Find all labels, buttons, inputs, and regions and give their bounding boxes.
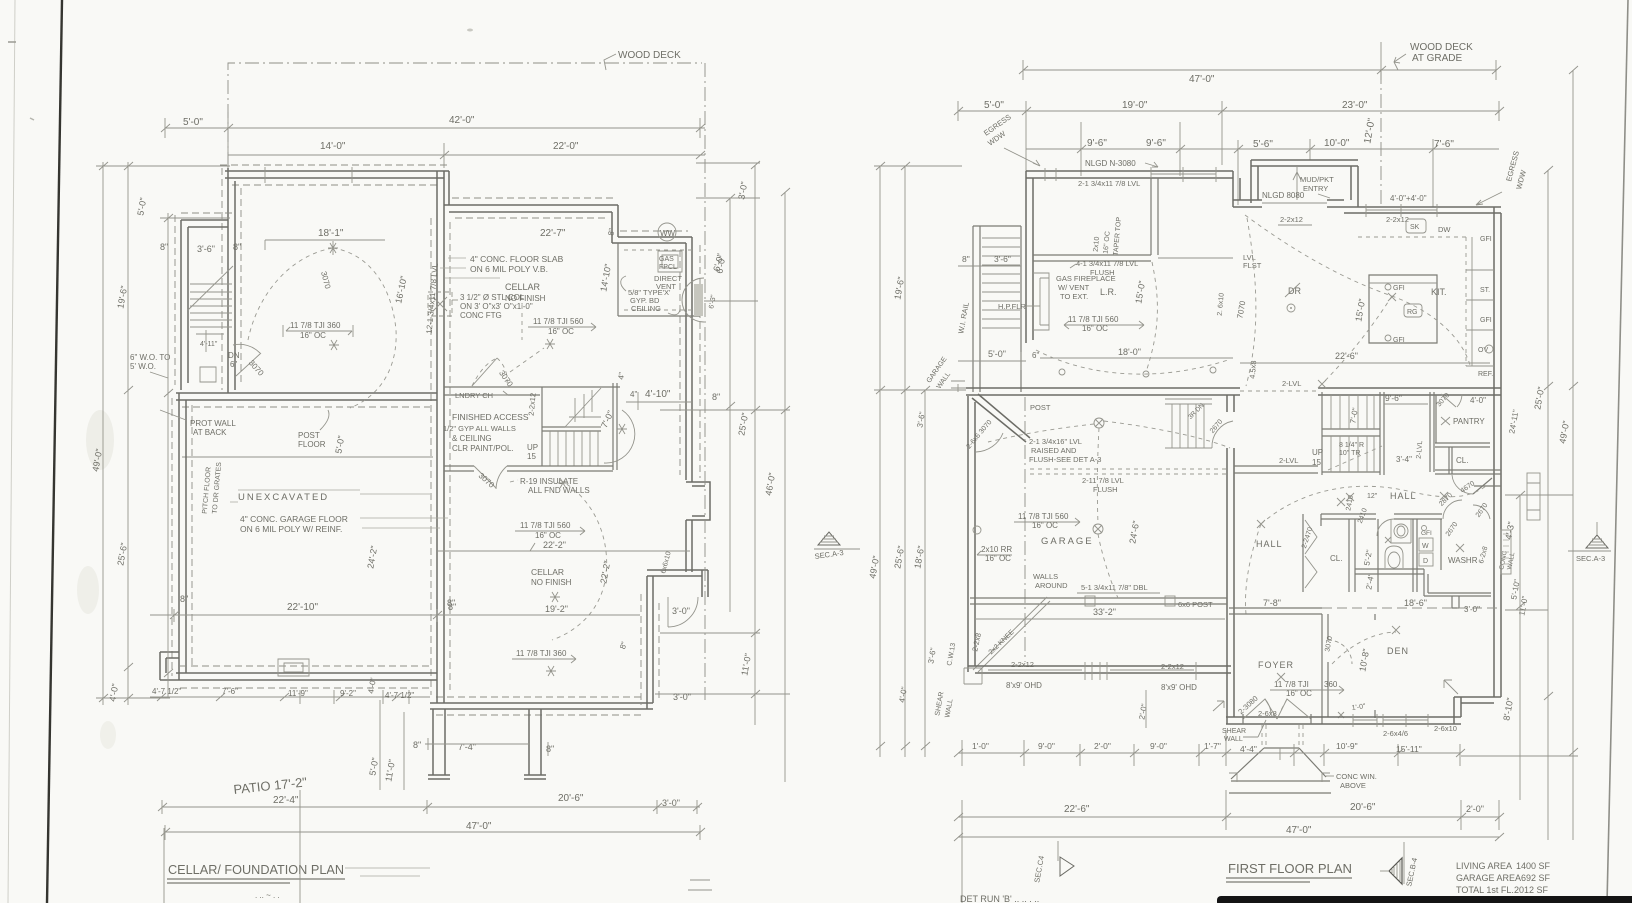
fireplace foundation bump right	[686, 482, 710, 520]
svg-text:ON 6 MIL POLY W/ REINF.: ON 6 MIL POLY W/ REINF.	[240, 524, 342, 534]
W.W circled symbol	[658, 223, 676, 241]
svg-text:9'-2": 9'-2"	[340, 689, 356, 698]
svg-text:3'-0": 3'-0"	[672, 606, 690, 616]
stair treads center lower flight	[1331, 436, 1374, 472]
svg-text:3 1/2" Ø STL COL: 3 1/2" Ø STL COL	[460, 293, 525, 302]
svg-text:18'-6": 18'-6"	[1404, 598, 1427, 608]
svg-text:5'-0": 5'-0"	[183, 117, 203, 128]
svg-text:9'-0": 9'-0"	[1150, 741, 1167, 751]
wall: cellar top-right	[444, 205, 618, 212]
light foyer den	[1277, 673, 1285, 681]
svg-text:UP: UP	[527, 443, 538, 452]
pier post 2	[524, 709, 546, 779]
garage door sills	[988, 662, 1196, 680]
svg-text:7'-6": 7'-6"	[222, 687, 238, 696]
outside stair left	[973, 226, 1021, 392]
garage entry steps	[1165, 399, 1212, 448]
svg-text:4'-4": 4'-4"	[1240, 744, 1257, 754]
dashed arc garage wiring	[1097, 428, 1099, 524]
garage knee brace diagonal	[973, 597, 1050, 672]
svg-text:FOYER: FOYER	[1258, 660, 1294, 670]
scan black bar bottom right	[1217, 896, 1632, 903]
svg-text:8'x9' OHD: 8'x9' OHD	[1161, 683, 1197, 692]
svg-text:CONC FTG: CONC FTG	[460, 311, 502, 320]
svg-text:22'-10": 22'-10"	[287, 602, 318, 613]
svg-text:NO FINISH: NO FINISH	[531, 578, 572, 587]
wall: garage front	[968, 666, 1231, 673]
mud bump top	[1251, 160, 1358, 203]
svg-text:GARAGE AREA: GARAGE AREA	[1456, 873, 1521, 883]
svg-text:1400 SF: 1400 SF	[1516, 861, 1551, 871]
svg-text:16" OC: 16" OC	[548, 327, 574, 336]
bottom dim row 2	[958, 816, 1499, 818]
svg-text:11 7/8 TJI 560: 11 7/8 TJI 560	[533, 317, 584, 326]
den/foyer divider	[1322, 614, 1328, 724]
svg-text:2-2x12: 2-2x12	[1011, 660, 1034, 669]
svg-text:WALL: WALL	[1224, 736, 1243, 743]
range box	[1404, 304, 1422, 317]
svg-text:4'-7 1/2": 4'-7 1/2"	[152, 687, 181, 696]
svg-text:CONC WIN.: CONC WIN.	[1336, 772, 1377, 781]
svg-text:47'-0": 47'-0"	[1189, 74, 1215, 85]
svg-text:3'-0": 3'-0"	[673, 692, 691, 702]
svg-text:11 7/8 TJI: 11 7/8 TJI	[1274, 680, 1309, 689]
mud bump arrow window	[1293, 166, 1301, 200]
svg-text:CLR PAINT/POL.: CLR PAINT/POL.	[452, 444, 514, 453]
windows bottom wall	[1353, 714, 1428, 727]
steel column detail	[428, 292, 452, 316]
stair treads entry	[190, 284, 232, 334]
svg-text:MUD/PKT: MUD/PKT	[1300, 175, 1334, 184]
svg-text:4" CONC. FLOOR SLAB: 4" CONC. FLOOR SLAB	[470, 254, 564, 264]
door NLGD 8080 opening	[1262, 202, 1327, 204]
SEC.B-4 marker	[1403, 842, 1405, 884]
svg-text:4'-0": 4'-0"	[1470, 396, 1486, 405]
dashed arcs dining	[1245, 215, 1470, 365]
svg-text:LNDRY CH: LNDRY CH	[455, 391, 493, 400]
svg-text:3'-4": 3'-4"	[1396, 455, 1412, 464]
chimney chase hatch right	[694, 284, 703, 316]
dashed arc den	[1332, 632, 1396, 664]
light hall	[1337, 498, 1345, 506]
entry stairwell box top-left	[181, 220, 228, 390]
opening door bottom front room	[472, 358, 497, 386]
kitchen sink box	[1406, 219, 1426, 233]
svg-text:. .. ~ . .: . .. ~ . .	[255, 891, 280, 900]
svg-text:11'-9": 11'-9"	[288, 689, 308, 698]
wall: right wall mid	[686, 520, 692, 572]
svg-text:7'-6": 7'-6"	[1434, 139, 1454, 150]
stair upper flight diagonal + treads	[565, 388, 601, 427]
svg-text:2-2x12: 2-2x12	[1280, 215, 1303, 224]
svg-text:GFI: GFI	[1393, 285, 1405, 292]
7070 opening dashes	[1240, 390, 1318, 392]
svg-text:W: W	[1422, 543, 1429, 550]
svg-text:KIT.: KIT.	[1431, 287, 1447, 297]
svg-text:11 7/8 TJI 360: 11 7/8 TJI 360	[290, 321, 341, 330]
svg-text:8'x9' OHD: 8'x9' OHD	[1006, 681, 1042, 690]
svg-text:2x10 RR: 2x10 RR	[981, 545, 1012, 554]
stair hall bottom wall	[444, 466, 613, 471]
counter dashed	[1358, 237, 1466, 366]
big dashed swing arc front room	[248, 248, 333, 340]
svg-text:PROT WALL: PROT WALL	[190, 419, 236, 428]
svg-text:TOTAL 1st FL.: TOTAL 1st FL.	[1456, 885, 1514, 895]
svg-text:DW: DW	[1438, 225, 1451, 234]
svg-text:4'-11": 4'-11"	[200, 341, 218, 348]
dashed curve cellar	[552, 480, 607, 640]
star	[550, 592, 560, 602]
dashed arc bdrm	[1036, 350, 1228, 374]
svg-text:11 7/8 TJI 360: 11 7/8 TJI 360	[516, 649, 567, 658]
closet bifold doors	[1303, 514, 1321, 592]
wall: right section vertical	[647, 576, 653, 709]
porch steps trapezoid	[1229, 748, 1331, 793]
wall: top-right footing dashes	[452, 198, 616, 218]
svg-text:HALL: HALL	[1256, 539, 1283, 549]
svg-text:22'-7": 22'-7"	[540, 228, 566, 239]
star symbol cellar	[558, 478, 568, 488]
right dim stack of left plan	[704, 63, 706, 700]
stairwell door leaf	[236, 353, 261, 376]
garage slab edge line	[182, 456, 433, 458]
svg-text:GFI: GFI	[1393, 337, 1405, 344]
svg-text:11 7/8 TJI 560: 11 7/8 TJI 560	[1068, 315, 1119, 324]
pier post 1	[428, 709, 450, 779]
right dim stack right plan	[1520, 70, 1573, 840]
svg-text:WALLS: WALLS	[1033, 572, 1058, 581]
svg-text:8": 8"	[160, 242, 168, 252]
svg-text:18'-0": 18'-0"	[1118, 347, 1141, 357]
svg-text:2-1 3/4x11 7/8 LVL: 2-1 3/4x11 7/8 LVL	[1078, 179, 1140, 188]
svg-text:GARAGE: GARAGE	[1041, 536, 1094, 547]
star above stairs	[545, 339, 555, 349]
svg-text:6x6 POST: 6x6 POST	[1178, 600, 1213, 609]
light pantry	[1441, 417, 1450, 425]
svg-text:SHEAR: SHEAR	[1222, 728, 1246, 735]
svg-text:5'-0": 5'-0"	[984, 100, 1004, 111]
svg-text:19'-0": 19'-0"	[1122, 100, 1148, 111]
svg-text:ON 3' O"x3' O"x1'-0": ON 3' O"x3' O"x1'-0"	[460, 302, 533, 311]
svg-text:15'-11": 15'-11"	[1396, 744, 1422, 754]
cabinets right wall	[1466, 237, 1494, 366]
vertical ref lines bottom title area	[164, 790, 300, 903]
tie lines right	[1461, 495, 1578, 756]
dim line 14'-0 / 22'-0	[228, 143, 705, 168]
svg-text:2-1 3/4x16" LVL: 2-1 3/4x16" LVL	[1029, 437, 1082, 446]
svg-text:CELLAR: CELLAR	[531, 567, 564, 577]
wall: hall/foyer divider	[1229, 608, 1322, 614]
wall: right wall	[1494, 207, 1501, 697]
beam line flush lvl	[1033, 255, 1151, 261]
svg-text:22'-4": 22'-4"	[273, 795, 299, 806]
svg-text:8": 8"	[546, 744, 554, 754]
svg-text:2x10: 2x10	[1093, 236, 1101, 252]
star symbol ceiling light	[328, 241, 338, 255]
svg-text:692 SF: 692 SF	[1521, 873, 1551, 883]
wall: step at x=444	[444, 171, 449, 212]
svg-text:DET RUN 'B' .. .. . ..: DET RUN 'B' .. .. . ..	[960, 894, 1039, 903]
wall: bdrm/lr divider vertical	[1151, 178, 1158, 255]
svg-text:D: D	[1423, 558, 1428, 565]
svg-text:2-6x10: 2-6x10	[1434, 724, 1457, 733]
svg-text:WW: WW	[660, 229, 676, 238]
svg-text:8": 8"	[413, 740, 421, 750]
stair diagonal entry	[188, 266, 233, 310]
fireplace box on left wall	[1033, 273, 1049, 330]
svg-text:POST: POST	[1030, 403, 1051, 412]
svg-text:FIRST FLOOR PLAN: FIRST FLOOR PLAN	[1228, 861, 1352, 876]
dim line 22'-4 20'-6 3'-0	[162, 800, 700, 814]
SEC.A-3 triangle right	[1586, 535, 1608, 548]
porch rails dashed	[1262, 725, 1303, 746]
svg-text:42'-0": 42'-0"	[449, 115, 475, 126]
svg-text:14'-0": 14'-0"	[320, 141, 346, 152]
sec C4 triangle left plan	[688, 880, 712, 890]
svg-text:FLUSH-SEE DET A-3: FLUSH-SEE DET A-3	[1029, 455, 1101, 464]
deck dash-dot vertical	[1380, 70, 1382, 207]
wall: top wall C	[612, 237, 692, 243]
svg-text:PANTRY: PANTRY	[1453, 417, 1485, 426]
svg-text:AROUND: AROUND	[1035, 581, 1068, 590]
svg-text:ALL FND WALLS: ALL FND WALLS	[528, 486, 590, 495]
svg-text:2012 SF: 2012 SF	[1514, 885, 1549, 895]
svg-text:FINISHED ACCESS: FINISHED ACCESS	[452, 412, 529, 422]
svg-text:9'-6": 9'-6"	[1385, 393, 1402, 403]
wall: left wall upper footing dashes	[222, 168, 241, 390]
light symbols bdrm	[1059, 369, 1065, 375]
leader arrow	[1394, 54, 1406, 70]
svg-text:RAISED AND: RAISED AND	[1031, 446, 1077, 455]
scan smudges left margin	[86, 410, 114, 470]
small vertical dim marks bottom	[300, 690, 409, 704]
svg-text:CELLAR/ FOUNDATION PLAN: CELLAR/ FOUNDATION PLAN	[168, 862, 344, 877]
svg-text:23'-0": 23'-0"	[1342, 100, 1368, 111]
left dim stack line 2	[127, 162, 129, 705]
leader line down from cellar text	[521, 305, 523, 340]
wall: bdrm top	[1026, 171, 1233, 178]
bath left wall	[1377, 519, 1379, 592]
dim 9-6 9-6 5-6 10-0 7-6	[1026, 122, 1499, 207]
svg-text:2-2x12: 2-2x12	[1386, 215, 1409, 224]
svg-text:2-11 7/8 LVL: 2-11 7/8 LVL	[1082, 476, 1124, 485]
svg-text:4-1 3/4x11 7/8 LVL: 4-1 3/4x11 7/8 LVL	[1076, 259, 1138, 268]
svg-text:W/ VENT: W/ VENT	[1058, 283, 1090, 292]
svg-text:11 7/8 TJI 560: 11 7/8 TJI 560	[1018, 512, 1069, 521]
svg-text:360: 360	[1324, 680, 1338, 689]
svg-text:& CEILING: & CEILING	[452, 434, 492, 443]
svg-text:15: 15	[1312, 458, 1321, 467]
dashed wiring across stairs	[1328, 446, 1382, 470]
closet bottom wall	[1474, 485, 1501, 487]
svg-text:2-LVL: 2-LVL	[1279, 456, 1298, 465]
washer dryer boxes	[1419, 538, 1433, 551]
svg-text:19'-2": 19'-2"	[545, 604, 568, 614]
gas fp room interior right upper	[618, 243, 700, 316]
svg-text:8": 8"	[180, 594, 188, 604]
bath bottom wall + step	[1355, 569, 1491, 596]
svg-text:16" OC: 16" OC	[535, 531, 561, 540]
dim line 5'-0 / 42'-0	[165, 112, 705, 175]
bath door arc	[1377, 519, 1394, 536]
laundry right wall	[1440, 519, 1442, 570]
stoop bump	[1452, 596, 1459, 608]
svg-text:GAS FIREPLACE: GAS FIREPLACE	[1056, 274, 1116, 283]
svg-text:47'-0": 47'-0"	[1286, 825, 1312, 836]
svg-text:8": 8"	[962, 254, 970, 264]
svg-text:22'-2": 22'-2"	[543, 540, 566, 550]
svg-text:9'-6": 9'-6"	[1087, 138, 1107, 149]
stair small square landing	[200, 367, 216, 382]
svg-text:22'-6": 22'-6"	[1064, 804, 1090, 815]
svg-text:10'-9": 10'-9"	[1336, 741, 1358, 751]
svg-text:DEN: DEN	[1387, 646, 1409, 656]
ref line bottom	[961, 820, 963, 903]
kitchen island	[1369, 275, 1437, 343]
garage beam line	[970, 598, 1227, 604]
closet right wall	[1349, 519, 1355, 592]
door arc bfast	[976, 433, 1003, 452]
leader arrow wood deck	[604, 54, 616, 70]
wall: kitchen top	[1344, 207, 1501, 213]
star at stair arc	[617, 424, 627, 434]
wall: garage/house divider	[1227, 395, 1234, 724]
wall: cellar top-left (solid pair)	[225, 171, 449, 178]
svg-text:2-6x4/6: 2-6x4/6	[1383, 729, 1408, 738]
svg-text:20'-6": 20'-6"	[558, 793, 584, 804]
wall: right wall upper	[686, 237, 692, 482]
scan left faint inner line	[8, 0, 15, 903]
cellar stairs center	[542, 383, 617, 470]
front double door arcs	[1243, 699, 1311, 719]
star	[546, 666, 556, 676]
svg-text:WOOD DECK: WOOD DECK	[1410, 42, 1473, 53]
wall: y390 long interior	[966, 388, 1501, 395]
left dim stack right plan	[880, 166, 925, 757]
svg-text:3'-6": 3'-6"	[197, 244, 215, 254]
svg-text:20'-6": 20'-6"	[1350, 802, 1376, 813]
bath cluster top wall	[1321, 514, 1442, 519]
garden window bump right	[1501, 530, 1511, 574]
wall: garage left	[179, 393, 186, 680]
bottom dim row 3 47'-0	[958, 836, 1499, 838]
svg-text:GFI: GFI	[1421, 530, 1432, 537]
svg-text:NLGD 8080: NLGD 8080	[1262, 191, 1305, 200]
garage beam centerline	[1024, 397, 1026, 662]
light symbols bath cluster	[1346, 492, 1464, 552]
svg-text:POST: POST	[298, 431, 320, 440]
svg-text:1'-7": 1'-7"	[1204, 741, 1221, 751]
garage door arc to house	[1212, 421, 1233, 448]
svg-text:1/2" GYP ALL WALLS: 1/2" GYP ALL WALLS	[443, 424, 516, 433]
svg-text:2-LVL: 2-LVL	[1282, 379, 1301, 388]
door arc at stair right	[604, 410, 635, 463]
svg-text:ENTRY: ENTRY	[1303, 184, 1328, 193]
svg-text:4'-7 1/2": 4'-7 1/2"	[385, 691, 414, 700]
vent semicircle	[682, 278, 704, 322]
post footing in garage bottom wall	[278, 659, 309, 676]
svg-text:6": 6"	[230, 360, 237, 369]
svg-text:UNEXCAVATED: UNEXCAVATED	[238, 492, 329, 503]
stair treads center lower flight	[550, 431, 598, 466]
svg-text:ON 6 MIL POLY V.B.: ON 6 MIL POLY V.B.	[470, 264, 548, 274]
svg-text:SK: SK	[1410, 224, 1420, 231]
svg-text:7'-4": 7'-4"	[458, 742, 476, 752]
svg-text:ST.: ST.	[1480, 287, 1490, 294]
door arcs hall right	[1452, 475, 1473, 494]
svg-text:FLOOR: FLOOR	[298, 440, 326, 449]
svg-text:9'-6": 9'-6"	[1146, 138, 1166, 149]
stair treads	[982, 238, 1020, 328]
column circle garage left	[973, 526, 981, 534]
wall: bdrm to mud	[1233, 171, 1240, 207]
svg-text:DN: DN	[228, 351, 240, 360]
svg-text:10" TR: 10" TR	[1339, 450, 1360, 457]
stair landing bottom	[951, 381, 1021, 392]
garage ceiling light symbols	[1094, 418, 1104, 428]
dashed arc hall	[1261, 486, 1486, 524]
svg-text:5'-0": 5'-0"	[988, 349, 1006, 359]
garage corner step	[964, 668, 982, 684]
svg-text:UP: UP	[1312, 448, 1323, 457]
svg-text:9'-0": 9'-0"	[1038, 741, 1055, 751]
wall: bottom right step	[1454, 697, 1501, 724]
wall: house bottom	[1226, 717, 1461, 724]
svg-text:WOOD DECK: WOOD DECK	[618, 50, 681, 61]
svg-text:6" W.O. TO: 6" W.O. TO	[130, 353, 170, 362]
svg-text:SEC.A-3: SEC.A-3	[1576, 554, 1605, 563]
svg-text:AT BACK: AT BACK	[193, 428, 227, 437]
svg-text:NLGD N-3080: NLGD N-3080	[1085, 159, 1136, 168]
svg-text:WASHR: WASHR	[1448, 556, 1478, 565]
svg-text:CL.: CL.	[1330, 554, 1342, 563]
wall: garage left	[968, 396, 975, 672]
tick marks	[161, 124, 705, 132]
svg-text:2-2x12: 2-2x12	[1161, 662, 1184, 671]
svg-text:2'-0": 2'-0"	[1466, 804, 1484, 814]
stair treads center upper flight	[1331, 394, 1374, 429]
svg-text:3'-6": 3'-6"	[994, 254, 1011, 264]
post squares	[1085, 596, 1095, 606]
joist arrow symbols	[283, 325, 353, 337]
wall: garage top	[176, 393, 437, 400]
door arcs wash rm	[1443, 500, 1462, 519]
svg-text:ABOVE: ABOVE	[1340, 781, 1366, 790]
svg-text:12": 12"	[1367, 493, 1378, 500]
left dim stack line 49'-0	[96, 162, 230, 705]
svg-text:GFI: GFI	[1480, 317, 1492, 324]
scan page edge dark line left	[47, 0, 62, 903]
sink counter + basin	[1391, 519, 1411, 543]
hall closet small	[1430, 392, 1434, 472]
corner arrows	[1444, 680, 1458, 694]
svg-text:33'-2": 33'-2"	[1093, 607, 1116, 617]
svg-text:8": 8"	[447, 598, 455, 608]
svg-text:AT GRADE: AT GRADE	[1412, 53, 1463, 64]
svg-text:R-19 INSULATE: R-19 INSULATE	[520, 477, 578, 486]
svg-text:10'-0": 10'-0"	[1324, 138, 1350, 149]
cellar bottom door leaf	[474, 466, 496, 488]
svg-text:OV: OV	[1478, 347, 1488, 354]
den right wall	[1374, 614, 1376, 718]
light symbols dining	[1291, 308, 1292, 309]
svg-text:H.P.FLR: H.P.FLR	[998, 302, 1026, 311]
svg-text:TO EXT.: TO EXT.	[1060, 292, 1088, 301]
wall: cellar bottom	[430, 703, 653, 709]
wall: interior y390 stair top	[444, 387, 620, 395]
center stairs	[1322, 392, 1384, 475]
wall: left wall bdrm	[1026, 171, 1033, 343]
